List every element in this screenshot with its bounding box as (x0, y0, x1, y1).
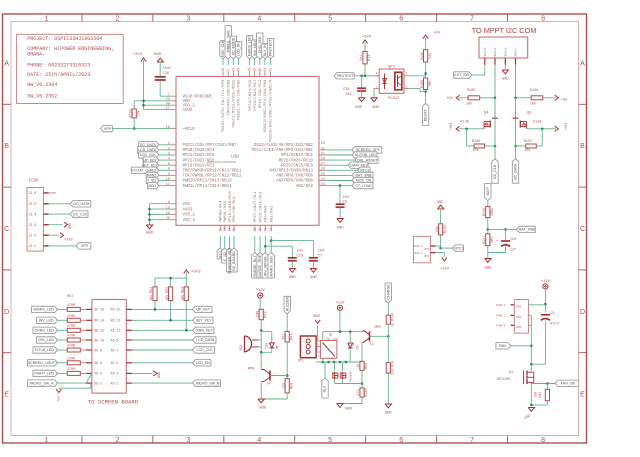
svg-text:X6-5: X6-5 (111, 361, 119, 365)
svg-text:11: 11 (166, 183, 171, 187)
svg-text:2: 2 (168, 147, 170, 151)
svg-text:5R1: 5R1 (491, 237, 495, 243)
svg-text:D: D (4, 309, 9, 316)
svg-text:10k R55: 10k R55 (165, 287, 170, 301)
svg-text:5: 5 (168, 163, 170, 167)
svg-text:470R: 470R (67, 325, 75, 329)
svg-text:LCD_EN: LCD_EN (196, 361, 210, 365)
svg-text:R164: R164 (444, 225, 448, 233)
svg-text:8: 8 (168, 168, 170, 172)
svg-text:OSC_CLK: OSC_CLK (221, 40, 225, 57)
svg-text:470R: 470R (67, 304, 75, 308)
svg-text:+3V3: +3V3 (564, 123, 568, 131)
svg-text:C: C (4, 226, 9, 233)
svg-text:33: 33 (321, 142, 325, 146)
svg-text:15: 15 (166, 207, 170, 211)
svg-text:7: 7 (470, 15, 474, 22)
svg-text:S138: S138 (533, 121, 542, 125)
svg-text:13: 13 (223, 228, 227, 232)
svg-text:NTC1: NTC1 (454, 246, 463, 250)
svg-text:36: 36 (221, 68, 225, 72)
svg-text:FAN: FAN (516, 326, 521, 329)
svg-text:X6-13: X6-13 (111, 319, 121, 323)
svg-text:ICSP: ICSP (29, 180, 40, 184)
svg-text:PHONE: 00233273315323: PHONE: 00233273315323 (27, 63, 90, 69)
svg-text:SV3-1: SV3-1 (414, 252, 423, 255)
svg-text:GND: GND (355, 106, 363, 110)
svg-text:LCD_CLK: LCD_CLK (197, 348, 214, 352)
svg-text:4: 4 (257, 437, 261, 444)
svg-text:RP20/CN26/RC1: RP20/CN26/RC1 (258, 191, 263, 223)
svg-text:GND: GND (146, 232, 154, 236)
svg-text:JP1: JP1 (298, 360, 304, 364)
svg-text:GND: GND (385, 412, 393, 416)
svg-text:J3-1: J3-1 (28, 244, 36, 248)
svg-text:B: B (580, 143, 585, 150)
svg-text:10uf: 10uf (163, 66, 172, 71)
svg-text:10k: 10k (534, 392, 538, 398)
svg-text:FAN_ON: FAN_ON (561, 382, 576, 386)
svg-text:AN0/RA0: AN0/RA0 (264, 205, 269, 222)
svg-text:1k: 1k (356, 364, 361, 368)
svg-text:+5V: +5V (446, 97, 454, 101)
svg-text:MAINS_SEN: MAINS_SEN (269, 256, 273, 277)
svg-text:AVDD: AVDD (183, 109, 193, 113)
svg-text:27: 27 (321, 163, 325, 167)
svg-text:RP1/VCN17/RC1: RP1/VCN17/RC1 (281, 153, 313, 158)
svg-text:OVL_LED: OVL_LED (38, 338, 54, 342)
svg-text:+12V: +12V (256, 289, 266, 293)
svg-text:38: 38 (248, 68, 252, 72)
svg-text:22k: 22k (281, 383, 286, 389)
svg-text:20: 20 (258, 228, 262, 232)
svg-text:NPN: NPN (374, 326, 380, 330)
svg-text:J3-2: J3-2 (28, 234, 36, 238)
svg-text:OSC2/CLKO/AN/RP2/CN2/RB2: OSC2/CLKO/AN/RP2/CN2/RB2 (254, 143, 314, 148)
svg-text:R148: R148 (365, 388, 369, 396)
svg-text:Q5: Q5 (527, 112, 532, 116)
svg-text:10k: 10k (466, 101, 472, 106)
svg-text:39: 39 (253, 68, 257, 72)
svg-text:20: 20 (166, 217, 170, 221)
svg-text:X6-8: X6-8 (94, 348, 102, 352)
svg-text:47uf: 47uf (550, 322, 559, 327)
svg-text:6: 6 (168, 201, 170, 205)
svg-text:DC_DATA: DC_DATA (73, 202, 90, 206)
svg-text:MAINS_LED: MAINS_LED (248, 36, 252, 57)
svg-text:ANS/RP13/CN30/RB13: ANS/RP13/CN30/RB13 (269, 169, 314, 174)
svg-text:PGEC1/OSA/RP7/CN23/RB7: PGEC1/OSA/RP7/CN23/RB7 (183, 143, 238, 148)
svg-text:RP23/CN23/RC7: RP23/CN23/RC7 (253, 79, 258, 111)
svg-text:MICRO_SW_A: MICRO_SW_A (30, 381, 54, 385)
svg-text:42: 42 (231, 68, 235, 72)
svg-text:I2C_DATA: I2C_DATA (514, 163, 518, 180)
svg-text:FIGHT_LED: FIGHT_LED (34, 372, 54, 376)
svg-text:PWM4L/RA3: PWM4L/RA3 (223, 200, 228, 222)
svg-text:4: 4 (376, 72, 378, 76)
svg-text:29: 29 (166, 212, 170, 216)
svg-text:DESAT: DESAT (424, 109, 428, 121)
svg-text:220R: 220R (67, 357, 75, 361)
svg-text:X6-9: X6-9 (111, 338, 119, 342)
svg-text:RLY: RLY (323, 385, 327, 392)
svg-text:8: 8 (541, 15, 545, 22)
svg-text:5k1: 5k1 (359, 55, 364, 61)
svg-text:SG1: SG1 (240, 344, 244, 350)
svg-text:INV_LED: INV_LED (39, 319, 54, 323)
svg-text:3: 3 (168, 152, 170, 156)
svg-text:1: 1 (45, 437, 49, 444)
svg-text:4: 4 (257, 15, 261, 22)
svg-text:+3V3: +3V3 (362, 36, 372, 40)
svg-text:RP24/CN24/RC8: RP24/CN24/RC8 (248, 79, 253, 111)
svg-text:X6-2: X6-2 (94, 381, 102, 385)
svg-text:NPN: NPN (248, 368, 254, 372)
svg-text:VPP: VPP (81, 244, 89, 248)
svg-text:40: 40 (166, 103, 170, 107)
svg-text:GND: GND (345, 408, 353, 412)
svg-text:HW_V0.2304: HW_V0.2304 (27, 82, 57, 88)
svg-text:C: C (580, 226, 585, 233)
svg-text:PGED3/NT0/SOSC/RP25/CN25/R: PGED3/NT0/SOSC/RP25/CN25/R (269, 79, 274, 142)
svg-text:R73: R73 (264, 311, 268, 317)
svg-text:SV1-3: SV1-3 (493, 48, 497, 57)
svg-text:DC_BOARD: DC_BOARD (232, 251, 236, 271)
svg-text:6: 6 (399, 437, 403, 444)
svg-text:10k: 10k (435, 226, 440, 232)
svg-text:19: 19 (253, 228, 257, 232)
svg-text:+3V3: +3V3 (440, 268, 449, 272)
svg-text:MAINS_LED: MAINS_LED (33, 308, 54, 312)
svg-text:VSS: VSS (183, 203, 191, 207)
svg-text:PROTECT: PROTECT (337, 74, 355, 78)
svg-text:Q4: Q4 (484, 112, 489, 116)
svg-text:RP20/CN25/RC4: RP20/CN25/RC4 (183, 148, 215, 153)
svg-text:SURGE_TRIP: SURGE_TRIP (258, 254, 262, 277)
svg-text:OSC1/CLKI/AN6/RPS/CN1/RB1: OSC1/CLKI/AN6/RPS/CN1/RB1 (252, 148, 314, 153)
svg-text:SET_KEY: SET_KEY (196, 319, 213, 323)
svg-text:X6-12: X6-12 (94, 329, 104, 333)
svg-text:10k: 10k (473, 148, 479, 153)
svg-text:+5V: +5V (56, 396, 60, 402)
svg-text:10k R52: 10k R52 (149, 287, 154, 301)
svg-text:FAN-1: FAN-1 (496, 304, 505, 307)
svg-text:VDD_2: VDD_2 (183, 104, 196, 108)
svg-text:Q1: Q1 (509, 371, 513, 375)
svg-text:2: 2 (115, 15, 119, 22)
svg-text:GND: GND (259, 407, 267, 411)
svg-text:T4: T4 (267, 383, 271, 387)
svg-text:VSS_3: VSS_3 (183, 219, 196, 223)
svg-text:LCD_DATA: LCD_DATA (196, 338, 215, 342)
svg-text:26: 26 (321, 168, 325, 172)
svg-text:X6-10: X6-10 (94, 338, 104, 342)
svg-text:21: 21 (263, 228, 267, 232)
svg-text:GND: GND (372, 106, 380, 110)
svg-text:PGEC3/SOSC/RP4/CN4/RB4: PGEC3/SOSC/RP4/CN4/RB4 (263, 79, 268, 132)
svg-text:R51: R51 (67, 295, 73, 299)
svg-text:541: 541 (429, 53, 433, 59)
svg-text:D10: D10 (264, 343, 268, 349)
svg-text:RP16/CN16/RC0: RP16/CN16/RC0 (228, 191, 233, 223)
svg-text:MD1: MD1 (149, 184, 157, 188)
svg-text:DWN_KEY: DWN_KEY (195, 329, 213, 333)
svg-text:FAN-3: FAN-3 (496, 325, 505, 328)
svg-text:24: 24 (321, 178, 326, 182)
svg-text:10k: 10k (530, 101, 536, 106)
svg-text:1: 1 (406, 72, 408, 76)
svg-text:IRF3205: IRF3205 (496, 378, 510, 382)
svg-text:X6-11: X6-11 (111, 329, 121, 333)
svg-text:35: 35 (269, 68, 273, 72)
svg-text:S138: S138 (460, 121, 469, 125)
svg-text:R106: R106 (530, 89, 538, 93)
svg-text:A: A (4, 60, 9, 67)
svg-text:SV3-2: SV3-2 (414, 245, 423, 248)
svg-text:J3-3: J3-3 (28, 223, 36, 227)
svg-text:5: 5 (328, 437, 332, 444)
svg-text:PWM2L/RP14/CN14/RB14: PWM2L/RP14/CN14/RB14 (183, 184, 233, 189)
svg-text:7: 7 (470, 437, 474, 444)
svg-text:AC_MODE: AC_MODE (231, 37, 235, 55)
svg-text:AN3/RP8/CN8/RB0: AN3/RP8/CN8/RB0 (276, 179, 313, 184)
svg-text:100k: 100k (490, 208, 495, 216)
svg-text:INV_LED: INV_LED (253, 41, 257, 56)
svg-text:1k R144: 1k R144 (391, 313, 396, 327)
svg-text:FLTLB_LED: FLTLB_LED (35, 348, 55, 352)
svg-text:MT: MT (276, 345, 280, 349)
svg-text:J3-4: J3-4 (28, 212, 36, 216)
svg-text:+12V: +12V (335, 302, 345, 306)
svg-text:RP27/CN27/RC1: RP27/CN27/RC1 (253, 191, 258, 223)
svg-text:SV1-4: SV1-4 (483, 48, 487, 57)
svg-text:DC_CLK: DC_CLK (73, 212, 88, 216)
svg-text:18: 18 (166, 126, 170, 130)
svg-text:E: E (4, 392, 9, 399)
svg-text:~MCLR: ~MCLR (183, 128, 196, 132)
svg-text:BAT+: BAT+ (486, 187, 490, 196)
svg-text:+3V3: +3V3 (132, 53, 142, 57)
svg-text:MT: MT (356, 346, 360, 350)
svg-text:41: 41 (263, 68, 267, 72)
svg-text:TDO/RP5/CN5/RB5: TDO/RP5/CN5/RB5 (226, 79, 231, 116)
svg-text:R104: R104 (524, 140, 532, 144)
svg-text:AN6/RP6/CN6/RB6: AN6/RP6/CN6/RB6 (276, 174, 313, 179)
svg-text:23: 23 (166, 98, 170, 102)
svg-text:X6-15: X6-15 (111, 308, 121, 312)
svg-text:R108: R108 (421, 52, 425, 60)
svg-text:470R: 470R (67, 335, 75, 339)
svg-text:GND: GND (310, 276, 318, 280)
svg-text:104: 104 (343, 196, 349, 200)
svg-text:AN1/RA1: AN1/RA1 (269, 205, 274, 222)
svg-text:R50: R50 (290, 383, 294, 389)
svg-text:10M: 10M (256, 311, 260, 317)
svg-text:3: 3 (186, 15, 190, 22)
svg-text:SI4606: SI4606 (349, 371, 352, 382)
svg-text:RLY_IN: RLY_IN (263, 44, 267, 57)
svg-text:R13: R13 (368, 55, 372, 61)
svg-text:X6-14: X6-14 (94, 319, 104, 323)
svg-text:2k2: 2k2 (281, 334, 286, 340)
svg-text:+: + (539, 312, 541, 316)
svg-text:GND: GND (337, 226, 345, 230)
svg-text:PWM2L_SW1: PWM2L_SW1 (226, 30, 230, 52)
svg-text:9: 9 (168, 173, 170, 177)
svg-text:RP25/CN25/RC9: RP25/CN25/RC9 (281, 163, 313, 168)
svg-text:25: 25 (321, 173, 325, 177)
svg-text:SCREEN_LIGHT: SCREEN_LIGHT (28, 361, 56, 365)
svg-text:R105: R105 (467, 89, 475, 93)
svg-text:R47: R47 (290, 334, 294, 340)
svg-text:RP22/CN22/RC6: RP22/CN22/RC6 (183, 158, 215, 163)
svg-text:44: 44 (237, 68, 241, 72)
svg-text:C7: C7 (318, 255, 322, 259)
svg-text:29: 29 (321, 158, 325, 162)
svg-text:+3V3: +3V3 (449, 123, 453, 131)
svg-text:R140: R140 (483, 208, 487, 216)
svg-text:1uf: 1uf (510, 248, 516, 253)
svg-text:17: 17 (166, 107, 170, 111)
svg-text:PWM2H/RP13/CN13/RB13: PWM2H/RP13/CN13/RB13 (183, 179, 233, 184)
svg-text:J3-5: J3-5 (28, 202, 36, 206)
svg-text:RP26/CN26/RC10: RP26/CN26/RC10 (279, 158, 314, 163)
svg-text:VSS_2: VSS_2 (183, 214, 196, 218)
svg-text:12: 12 (218, 228, 222, 232)
svg-text:32: 32 (321, 147, 325, 151)
svg-text:BAT_SNB: BAT_SNB (519, 228, 536, 232)
svg-text:SV1-1: SV1-1 (514, 48, 518, 57)
svg-text:+: + (496, 240, 498, 244)
svg-text:TO MPPT I2C COM: TO MPPT I2C COM (472, 26, 537, 35)
svg-text:PGED2/SDT5/TDL/TCL/RP6: PGED2/SDT5/TDL/TCL/RP6 (221, 79, 226, 132)
svg-text:R147: R147 (483, 236, 487, 244)
svg-text:X6-3: X6-3 (111, 372, 119, 376)
svg-text:15: 15 (232, 228, 236, 232)
svg-text:CHARGE: CHARGE (386, 284, 390, 300)
svg-text:GND: GND (289, 276, 297, 280)
svg-text:PROTECT: PROTECT (269, 38, 273, 56)
svg-text:40: 40 (258, 68, 262, 72)
svg-text:E: E (580, 392, 585, 399)
svg-text:+5V: +5V (561, 98, 569, 102)
svg-text:R109: R109 (421, 80, 425, 88)
svg-text:PGED1/RP6/CN6/RB6: PGED1/RP6/CN6/RB6 (237, 79, 242, 120)
svg-text:2: 2 (115, 437, 119, 444)
svg-text:AN2/RA2: AN2/RA2 (296, 184, 314, 189)
svg-text:2: 2 (226, 70, 230, 72)
svg-text:R41: R41 (538, 392, 542, 398)
svg-text:VDD: VDD (183, 100, 191, 104)
svg-text:D: D (580, 309, 585, 316)
svg-text:VPP: VPP (104, 127, 112, 131)
svg-text:I2C_CLK: I2C_CLK (493, 164, 497, 179)
svg-text:R58: R58 (365, 363, 369, 369)
svg-text:MICRO_SW_B: MICRO_SW_B (196, 381, 220, 385)
svg-text:RP9/CN9/RC1: RP9/CN9/RC1 (232, 195, 237, 222)
svg-text:PGEC2/RP15/CN15/RB15: PGEC2/RP15/CN15/RB15 (232, 79, 237, 128)
svg-text:C28: C28 (510, 238, 516, 242)
svg-text:10k: 10k (428, 81, 433, 87)
svg-text:10k: 10k (136, 110, 141, 116)
svg-text:C3: C3 (550, 312, 554, 316)
svg-text:PROJECT: DSPIC33HJ16GS504: PROJECT: DSPIC33HJ16GS504 (27, 36, 102, 42)
svg-text:UP_KEY: UP_KEY (196, 308, 211, 312)
svg-text:22: 22 (269, 228, 273, 232)
svg-text:GND: GND (484, 267, 492, 271)
svg-text:RP16/CN1/RC2: RP16/CN1/RC2 (258, 79, 263, 108)
svg-text:7: 7 (168, 94, 170, 98)
svg-text:470R: 470R (67, 345, 75, 349)
svg-text:GHANA.: GHANA. (27, 52, 45, 58)
svg-text:14: 14 (228, 228, 232, 232)
svg-text:PWM4H/RA4: PWM4H/RA4 (219, 200, 224, 222)
svg-text:470R: 470R (67, 368, 75, 372)
svg-text:5: 5 (328, 15, 332, 22)
svg-text:X6-4: X6-4 (94, 372, 102, 376)
svg-text:R103: R103 (472, 140, 480, 144)
svg-text:GND: GND (502, 78, 508, 82)
svg-text:RP19/CN19/RC3: RP19/CN19/RC3 (183, 163, 215, 168)
svg-text:104: 104 (318, 250, 324, 254)
svg-text:31: 31 (321, 152, 326, 156)
svg-text:47k: 47k (356, 389, 361, 395)
svg-text:23: 23 (321, 183, 325, 187)
svg-text:U$2: U$2 (231, 154, 240, 159)
svg-text:SW_V6.2302: SW_V6.2302 (27, 93, 57, 99)
svg-text:RT: RT (329, 333, 333, 337)
svg-text:VCAP/VDDCORE: VCAP/VDDCORE (183, 94, 213, 99)
svg-text:EXT_SW: EXT_SW (454, 73, 469, 77)
svg-text:CT_LOAD: CT_LOAD (355, 184, 372, 188)
svg-text:6: 6 (399, 15, 403, 22)
svg-text:+5V: +5V (433, 32, 441, 36)
svg-text:TO SCREEN BOARD: TO SCREEN BOARD (88, 399, 139, 406)
svg-text:104: 104 (345, 93, 351, 97)
svg-text:DATE: 25th/APRIL/2023.: DATE: 25th/APRIL/2023. (27, 72, 93, 78)
svg-text:10k R56: 10k R56 (181, 287, 186, 301)
svg-text:X6-7: X6-7 (111, 348, 119, 352)
svg-text:22k R26: 22k R26 (391, 361, 396, 375)
svg-text:CHG_LED: CHG_LED (258, 36, 262, 53)
svg-text:FAN: FAN (499, 344, 506, 348)
svg-text:RP21/CN21/RC5: RP21/CN21/RC5 (183, 153, 215, 158)
svg-text:INV_SENSE: INV_SENSE (263, 256, 267, 277)
svg-text:10k: 10k (524, 148, 530, 153)
svg-text:PC817: PC817 (388, 97, 399, 101)
svg-text:8: 8 (541, 437, 545, 444)
svg-text:AVSS: AVSS (183, 208, 193, 212)
svg-text:R185: R185 (129, 109, 133, 117)
svg-text:FAN-2: FAN-2 (496, 315, 505, 318)
svg-text:GND: GND (154, 53, 162, 57)
svg-text:+3V3: +3V3 (64, 239, 73, 243)
svg-text:470R: 470R (67, 315, 75, 319)
svg-text:FAN: FAN (516, 316, 521, 319)
svg-text:+3V3: +3V3 (191, 271, 201, 275)
svg-text:BUZZER: BUZZER (285, 297, 289, 312)
svg-text:X6-6: X6-6 (94, 361, 102, 365)
svg-text:GND: GND (158, 372, 162, 378)
svg-text:T3: T3 (370, 343, 374, 347)
svg-text:10: 10 (166, 178, 170, 182)
svg-text:A: A (580, 60, 585, 67)
svg-text:LCD_EN: LCD_EN (237, 42, 241, 56)
svg-text:NTC: NTC (425, 255, 430, 258)
svg-text:NTC: NTC (425, 248, 430, 251)
svg-text:C36: C36 (163, 72, 169, 76)
svg-text:1: 1 (45, 15, 49, 22)
